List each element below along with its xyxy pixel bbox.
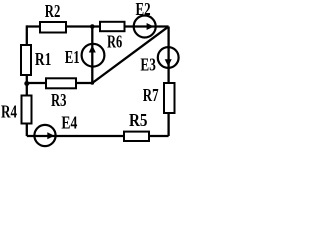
resistor R7 xyxy=(164,83,175,113)
wire: middle vertical (node top to node mid) xyxy=(91,27,93,84)
svg-text:R3: R3 xyxy=(51,90,67,110)
svg-text:E3: E3 xyxy=(140,55,155,75)
svg-text:R4: R4 xyxy=(1,102,17,122)
wire: right vertical xyxy=(167,27,169,137)
wire: bottom horizontal xyxy=(27,135,169,137)
resistor R4 xyxy=(22,96,32,124)
svg-text:R2: R2 xyxy=(45,1,61,21)
svg-text:E2: E2 xyxy=(136,0,151,19)
resistor R2 xyxy=(40,22,66,33)
resistor R6 xyxy=(100,22,125,31)
resistor R5 xyxy=(124,132,149,141)
node dot: left junction xyxy=(24,81,29,86)
node dot: top junction xyxy=(90,24,95,29)
wire: top horizontal xyxy=(27,25,169,27)
source E1 xyxy=(82,44,105,67)
wire: left vertical xyxy=(26,25,28,136)
wire: middle horizontal (R3 branch) xyxy=(27,82,93,84)
source E2 xyxy=(134,16,156,38)
svg-text:R7: R7 xyxy=(143,85,159,105)
svg-text:R6: R6 xyxy=(107,31,122,51)
svg-text:R1: R1 xyxy=(35,49,52,69)
svg-text:E4: E4 xyxy=(61,112,77,132)
svg-text:R5: R5 xyxy=(129,110,148,130)
resistor R1 xyxy=(21,45,31,75)
source E4 xyxy=(34,125,55,146)
svg-text:E1: E1 xyxy=(65,47,80,67)
source E3 xyxy=(158,47,179,68)
resistor R3 xyxy=(46,78,76,88)
wire: diagonal xyxy=(92,27,168,83)
node dot: mid junction xyxy=(91,81,95,85)
